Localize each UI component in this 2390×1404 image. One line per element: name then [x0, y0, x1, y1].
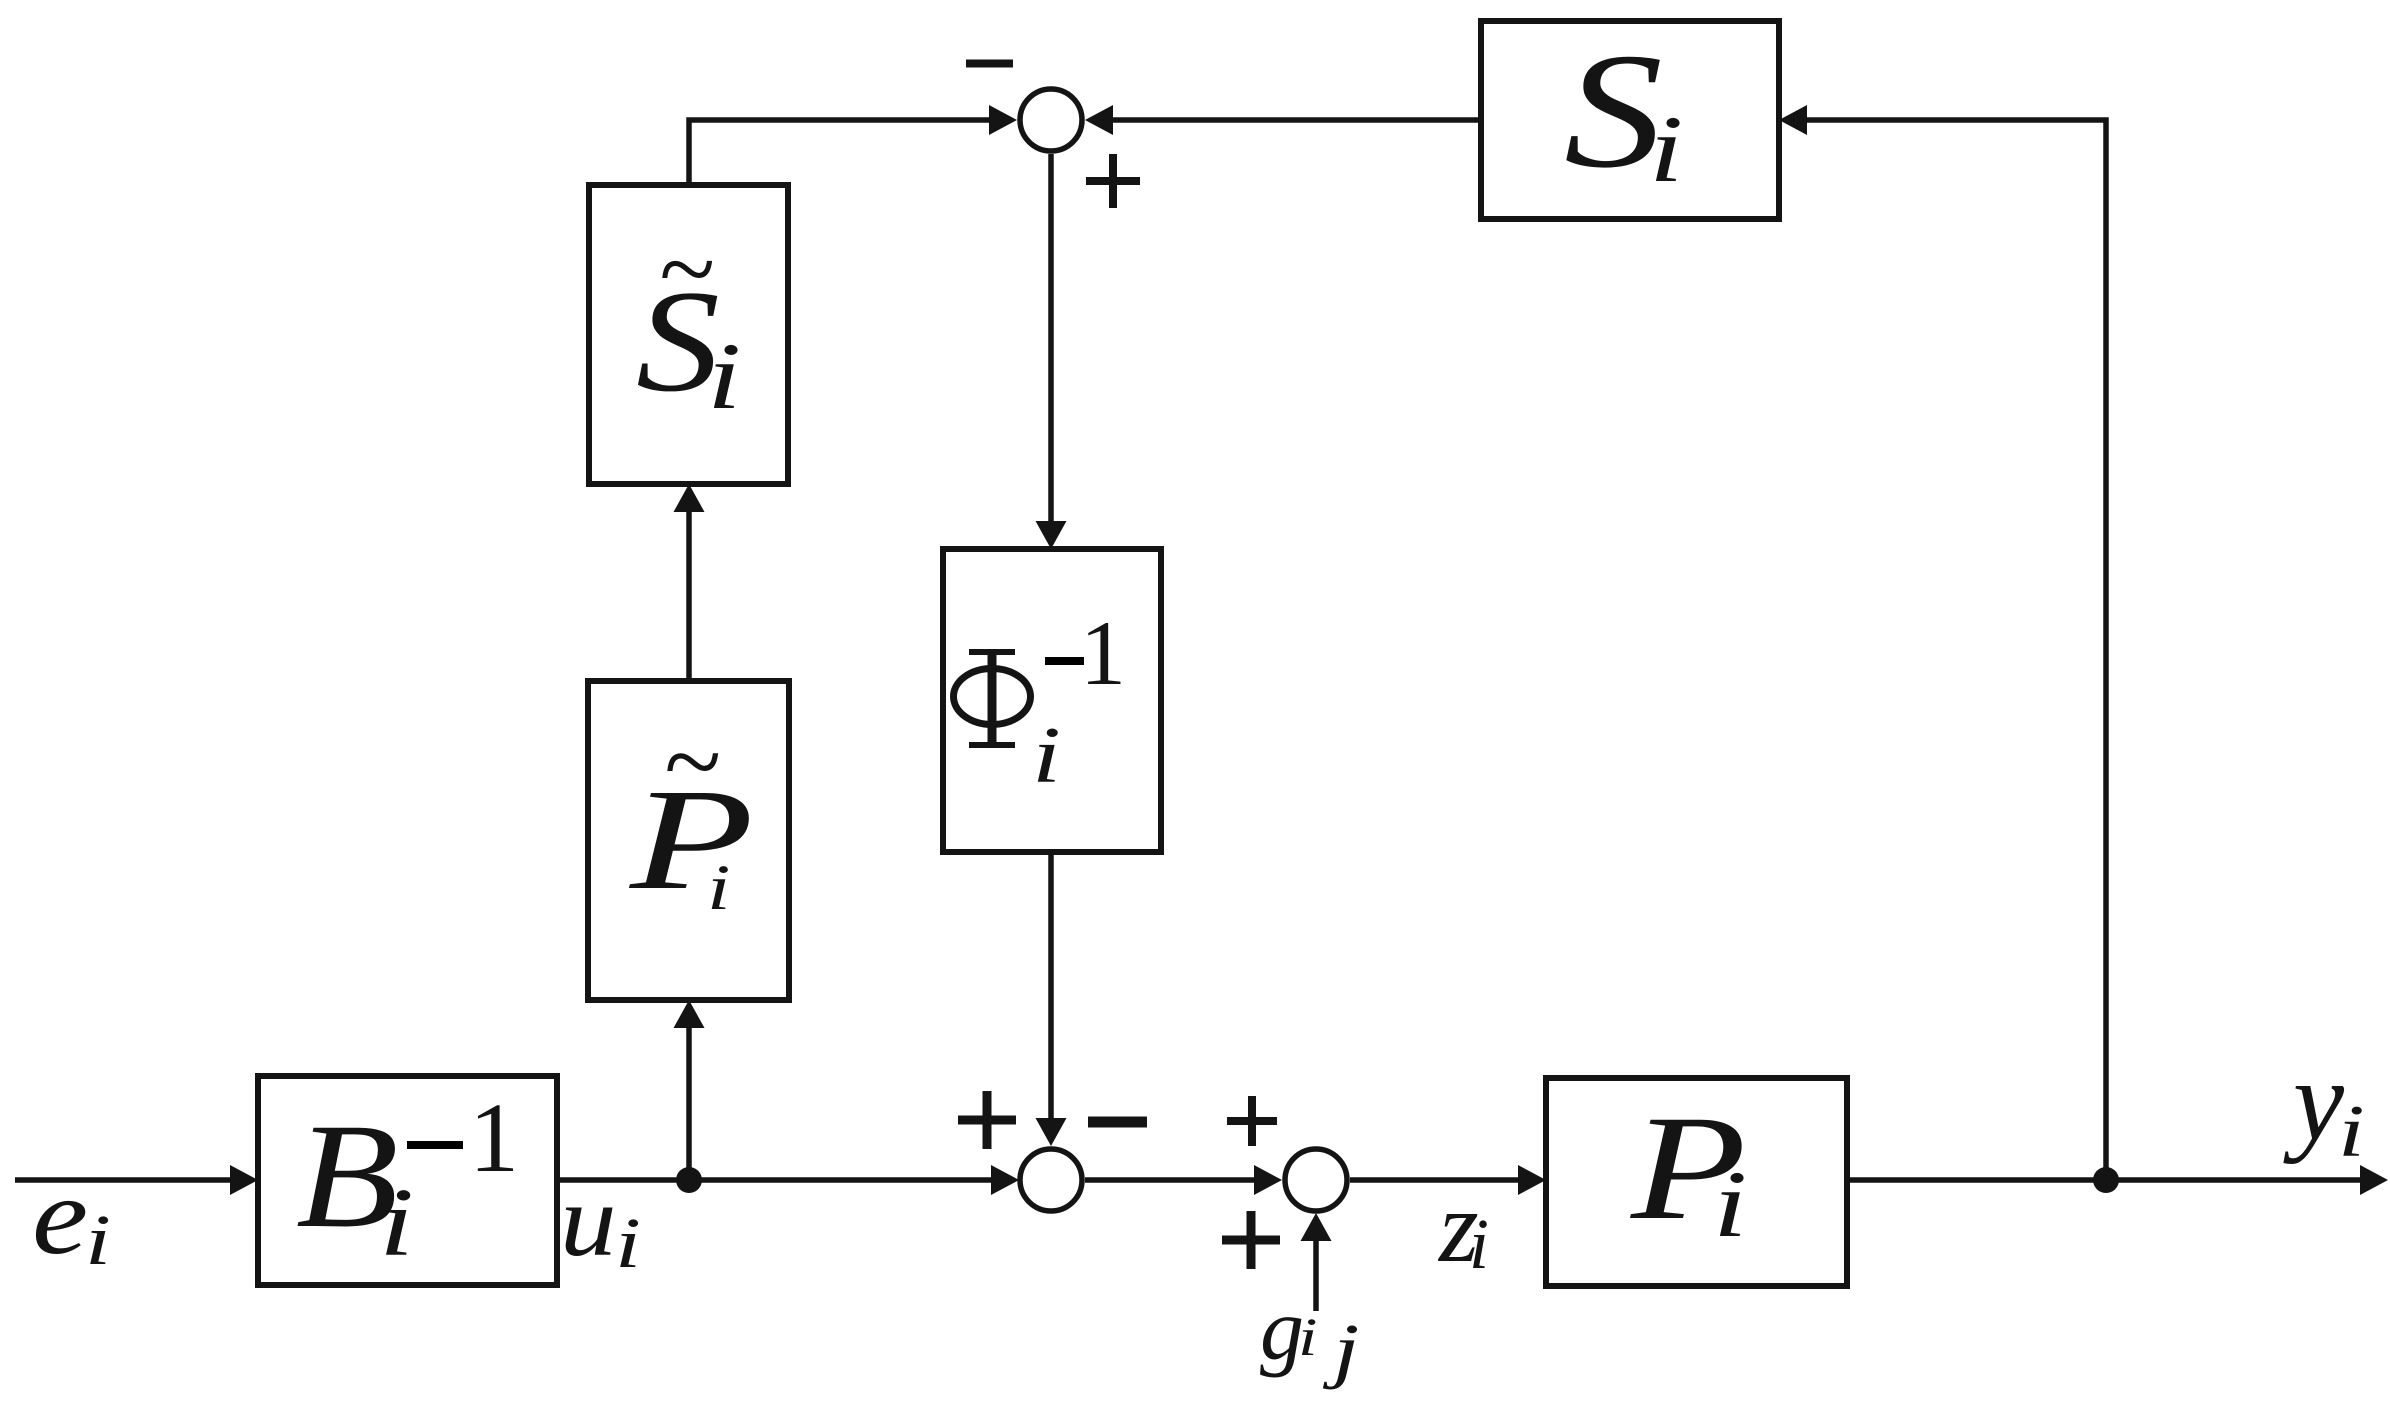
svg-text:~: ~: [663, 703, 720, 820]
svg-text:1: 1: [1080, 602, 1126, 704]
wire: Phi down into C2: [1036, 852, 1067, 1146]
block S~_i: [589, 185, 788, 484]
sign plus top-left of C3: [1227, 1096, 1277, 1146]
wire: P_i output to y_i with branch node: [1847, 1165, 2388, 1195]
sign minus right of C2: [1088, 1117, 1147, 1128]
node output branch dot: [2093, 1167, 2119, 1193]
block P~_i: [588, 681, 789, 1000]
wire: S~_i top, corner, into summing node C1: [689, 105, 1017, 185]
svg-text:i: i: [615, 1204, 641, 1283]
wire: feedback from output node up and left into S_i: [1779, 105, 2106, 1180]
svg-text:i: i: [707, 852, 730, 924]
svg-text:i: i: [1032, 711, 1061, 800]
wire: e_i input into B_i^-1: [15, 1165, 258, 1195]
sign plus bottom-left of C3: [1222, 1211, 1280, 1269]
wire: C1 down into Phi_i^-1: [1036, 154, 1067, 549]
wire: B output toward summing node C2: [557, 1165, 1019, 1195]
sign minus at C1: [966, 60, 1013, 68]
wire: C3 to P_i: [1350, 1165, 1546, 1195]
svg-text:y: y: [2283, 1037, 2345, 1164]
svg-text:i: i: [1713, 1151, 1747, 1256]
sign plus at C1: [1086, 154, 1140, 208]
block Phi_i^-1: [943, 549, 1161, 852]
svg-text:1: 1: [469, 1082, 519, 1193]
svg-text:i: i: [2338, 1090, 2365, 1172]
svg-text:i: i: [1649, 96, 1683, 201]
wire: g_ij up into C3: [1301, 1213, 1332, 1311]
wire: branch up into P~_i: [674, 1000, 705, 1180]
wire: S_i output into C1: [1085, 105, 1481, 135]
svg-text:i: i: [85, 1201, 111, 1280]
svg-text:e: e: [32, 1155, 88, 1277]
summing node C2 (bottom left): [1020, 1149, 1082, 1211]
node u_i branch dot: [676, 1167, 702, 1193]
svg-text:i: i: [379, 1170, 414, 1277]
sign plus left of C2: [958, 1091, 1016, 1149]
block P_i: [1546, 1078, 1847, 1286]
svg-text:u: u: [560, 1165, 617, 1278]
wire: P~_i up into S~_i: [674, 484, 705, 681]
svg-text:i: i: [1298, 1307, 1318, 1367]
block S_i: [1481, 20, 1779, 219]
block B_i^-1: [258, 1076, 557, 1285]
summing node C3 (bottom right): [1285, 1149, 1347, 1211]
svg-text:i: i: [1469, 1204, 1489, 1284]
svg-text:i: i: [707, 323, 741, 428]
summing node C1 (top): [1020, 89, 1082, 151]
wire: C2 to C3: [1085, 1165, 1282, 1195]
svg-text:~: ~: [658, 212, 714, 326]
